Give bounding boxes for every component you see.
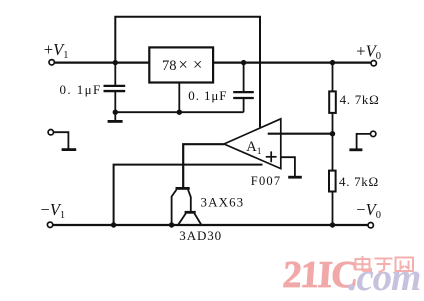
wire A1 output to Q1 base	[183, 144, 224, 187]
node Q1 emitter / negative rail	[169, 222, 174, 227]
terminal -V0	[368, 223, 373, 228]
wire +V1 to regulator input	[54, 61, 149, 63]
capacitor C1 0.1uF	[104, 63, 126, 113]
svg-text:3AX63: 3AX63	[201, 195, 245, 210]
ground left mid	[54, 132, 77, 149]
node junction C2 / output	[241, 60, 246, 65]
node V- supply / negative rail	[111, 222, 116, 227]
op-amp plus sign	[266, 151, 277, 162]
ground right mid	[349, 134, 370, 150]
terminal right ground	[371, 131, 376, 136]
wire negative rail -V1 to -V0	[53, 224, 368, 226]
svg-text:0. 1μF: 0. 1μF	[60, 82, 102, 97]
watermark dianziwang	[356, 256, 414, 273]
transistor Q1 3AX63	[172, 188, 191, 225]
wire A1 non-inverting input to ground	[281, 157, 295, 176]
wire regulator GND pin	[178, 83, 180, 113]
wire A1 inverting input	[268, 133, 333, 135]
svg-text:3AD30: 3AD30	[179, 228, 222, 243]
svg-text:21IC: 21IC	[281, 254, 358, 296]
transistor Q2 3AD30	[178, 212, 201, 225]
wire top feedback loop	[115, 17, 260, 128]
regulator U1 78xx	[149, 47, 213, 82]
resistor R1 4.7k	[329, 63, 336, 134]
wire regulator output to +V0	[213, 61, 371, 63]
svg-text:0. 1μF: 0. 1μF	[188, 88, 227, 103]
wire ground rail under regulator	[115, 111, 243, 113]
node R1 / R2 / A1 minus	[330, 131, 335, 136]
node R2 bottom / negative rail	[330, 222, 335, 227]
ground below C1	[108, 112, 123, 121]
ground at A1 plus input	[288, 176, 302, 179]
svg-text:×: ×	[179, 55, 188, 74]
svg-text:F007: F007	[251, 174, 282, 188]
terminal +V1	[49, 60, 54, 65]
node C1 / ground rail	[113, 110, 118, 115]
wire A1 V- supply	[114, 165, 263, 225]
svg-text:78: 78	[162, 58, 177, 74]
terminal +V0	[371, 61, 376, 66]
resistor R2 4.7k	[329, 134, 336, 225]
svg-text:4. 7kΩ: 4. 7kΩ	[339, 174, 379, 189]
op-amp A1	[224, 119, 281, 169]
svg-text:4. 7kΩ: 4. 7kΩ	[340, 92, 380, 107]
capacitor C2 0.1uF	[233, 63, 254, 113]
node junction C1 / input	[113, 60, 118, 65]
node junction R1 top / output	[330, 60, 335, 65]
svg-text:×: ×	[193, 55, 202, 74]
node regulator GND / rail	[177, 110, 182, 115]
terminal left ground	[48, 130, 53, 135]
terminal -V1	[47, 222, 52, 227]
